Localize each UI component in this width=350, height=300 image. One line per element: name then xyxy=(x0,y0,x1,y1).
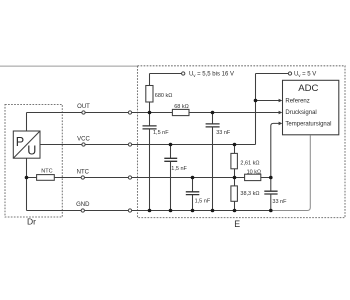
svg-text:GND: GND xyxy=(76,202,90,208)
svg-text:E: E xyxy=(234,219,240,229)
svg-text:Dr: Dr xyxy=(27,217,36,227)
svg-text:U: U xyxy=(27,143,36,157)
svg-text:Temperatursignal: Temperatursignal xyxy=(285,122,331,128)
svg-text:Uv = 5 V: Uv = 5 V xyxy=(294,72,316,78)
svg-text:1,5 nF: 1,5 nF xyxy=(171,166,187,172)
svg-text:VCC: VCC xyxy=(77,137,90,143)
svg-text:10 kΩ: 10 kΩ xyxy=(247,169,262,175)
svg-text:1,5 nF: 1,5 nF xyxy=(195,199,211,205)
svg-text:2,61 kΩ: 2,61 kΩ xyxy=(240,161,259,167)
svg-text:1,5 nF: 1,5 nF xyxy=(153,130,169,136)
svg-text:NTC: NTC xyxy=(77,169,90,175)
svg-text:P: P xyxy=(16,135,24,149)
svg-text:NTC: NTC xyxy=(41,168,52,174)
svg-text:Uv = 5,5 bis 16 V: Uv = 5,5 bis 16 V xyxy=(189,72,234,78)
svg-text:OUT: OUT xyxy=(77,104,90,110)
svg-text:38,3 kΩ: 38,3 kΩ xyxy=(240,191,259,197)
svg-text:33 nF: 33 nF xyxy=(272,199,287,205)
svg-text:Referenz: Referenz xyxy=(285,99,309,105)
svg-text:68 kΩ: 68 kΩ xyxy=(174,104,189,110)
svg-text:680 kΩ: 680 kΩ xyxy=(155,93,173,99)
svg-text:Drucksignal: Drucksignal xyxy=(285,110,316,116)
svg-text:ADC: ADC xyxy=(298,83,318,94)
svg-text:33 nF: 33 nF xyxy=(216,130,231,136)
